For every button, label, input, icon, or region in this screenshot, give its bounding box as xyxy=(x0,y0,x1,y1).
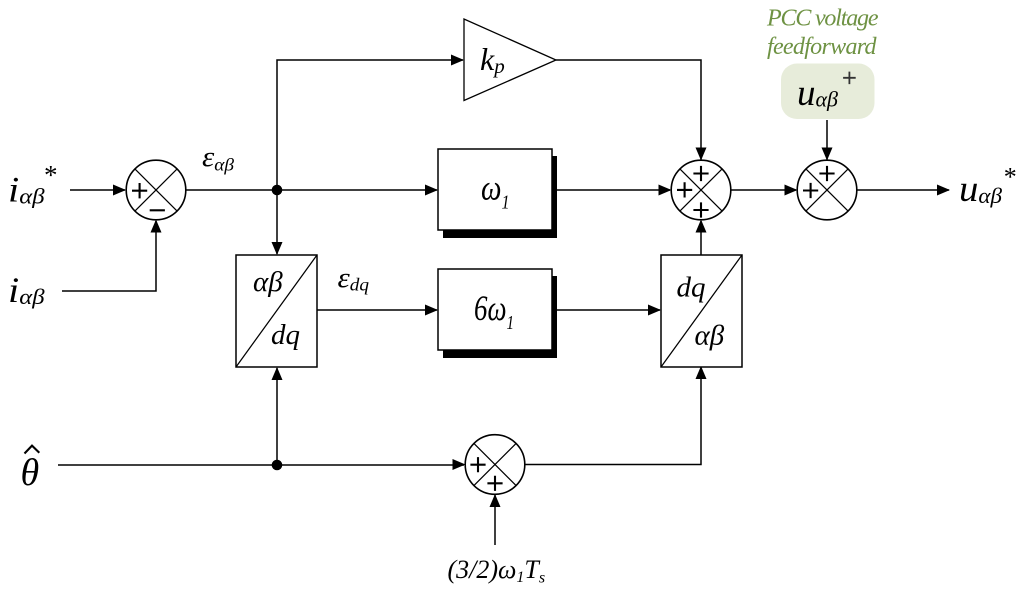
svg-text:*: * xyxy=(1003,163,1016,192)
svg-text:dq: dq xyxy=(677,272,706,304)
svg-text:PCC voltage: PCC voltage xyxy=(766,5,879,31)
svg-text:θ: θ xyxy=(21,452,40,494)
svg-text:dq: dq xyxy=(271,319,300,351)
svg-text:*: * xyxy=(43,160,57,190)
svg-text:αβ: αβ xyxy=(695,320,725,352)
svg-text:(3/2)ω1Ts: (3/2)ω1Ts xyxy=(448,555,546,587)
svg-text:feedforward: feedforward xyxy=(767,34,878,60)
svg-text:αβ: αβ xyxy=(253,266,283,298)
